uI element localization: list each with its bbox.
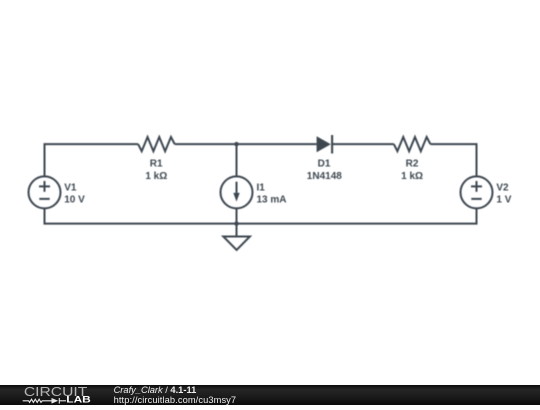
footer bar <box>0 385 540 406</box>
CircuitLab logo circuit graphic <box>23 398 66 404</box>
svg-text:1 kΩ: 1 kΩ <box>145 171 167 182</box>
label I1 value <box>257 183 287 206</box>
resistor R2 <box>394 137 431 151</box>
svg-text:R2: R2 <box>406 159 419 170</box>
label R2 value <box>401 159 423 182</box>
wire: I1 bottom to node B <box>236 208 238 223</box>
wire: node A to D1 anode <box>237 143 317 145</box>
current source I1 <box>221 176 253 208</box>
svg-text:V1: V1 <box>64 183 77 194</box>
wire: node A to I1 top <box>236 144 238 177</box>
label D1 value <box>307 159 342 182</box>
label V1 value <box>64 183 85 206</box>
wire: node B to V2 bottom (bottom-right corner) <box>237 208 477 223</box>
wire: D1 cathode to R2 left <box>332 143 394 145</box>
svg-text:1N4148: 1N4148 <box>307 171 342 182</box>
svg-text:Crafy_Clark / 4.1-11: Crafy_Clark / 4.1-11 <box>114 385 197 395</box>
svg-text:LAB: LAB <box>66 394 91 404</box>
svg-text:13 mA: 13 mA <box>257 194 287 205</box>
svg-text:10 V: 10 V <box>64 194 85 205</box>
wire: V1 bottom to node B (bottom-left corner) <box>45 208 237 223</box>
voltage source V1 <box>29 176 61 208</box>
junction node A <box>234 142 238 146</box>
svg-text:V2: V2 <box>496 183 509 194</box>
wire: V1 top to R1 left (top-left corner) <box>45 144 139 176</box>
wire: R2 right to V2 top (top-right corner) <box>430 144 476 176</box>
svg-text:1 kΩ: 1 kΩ <box>401 171 423 182</box>
wire: R1 right to node A <box>175 143 237 145</box>
junction node B <box>234 221 238 225</box>
diode D1 <box>317 135 333 154</box>
svg-text:R1: R1 <box>150 159 163 170</box>
svg-text:I1: I1 <box>257 183 266 194</box>
label R1 value <box>145 159 167 182</box>
label V2 value <box>496 183 511 206</box>
svg-text:D1: D1 <box>318 159 331 170</box>
voltage source V2 <box>461 176 493 208</box>
ground <box>223 224 250 250</box>
svg-text:1 V: 1 V <box>496 194 511 205</box>
svg-text:http://circuitlab.com/cu3msy7: http://circuitlab.com/cu3msy7 <box>114 394 237 404</box>
resistor R1 <box>138 137 175 151</box>
